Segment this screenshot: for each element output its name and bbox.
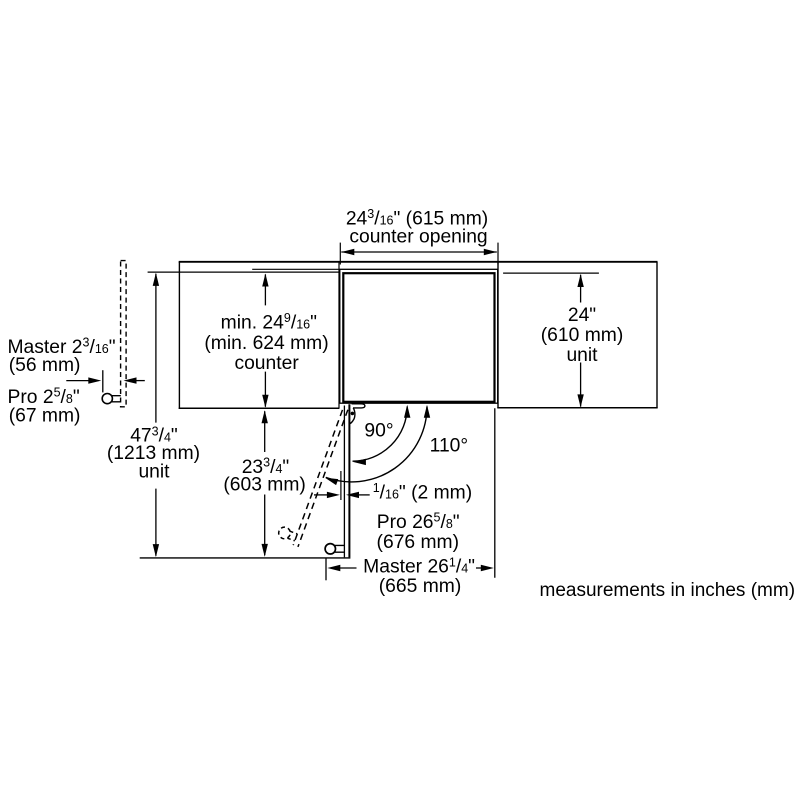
side-view handle stem bbox=[112, 396, 121, 402]
1/16 extension line bbox=[340, 471, 342, 500]
min counter dimension line bbox=[264, 274, 266, 406]
right counter right edge bbox=[656, 262, 658, 408]
svg-text:(665 mm): (665 mm) bbox=[379, 576, 462, 597]
master dimension left arrow line bbox=[340, 567, 357, 569]
wall line across top bbox=[179, 261, 658, 263]
top dimension line bbox=[341, 251, 497, 253]
1/16 right-pointing arrowhead bbox=[327, 492, 340, 498]
svg-text:90°: 90° bbox=[364, 420, 393, 441]
svg-text:measurements in inches (mm): measurements in inches (mm) bbox=[540, 580, 796, 601]
min counter up arrowhead bbox=[262, 274, 268, 287]
hinge curve bbox=[349, 408, 355, 424]
dashed door at 110 degrees bbox=[276, 402, 348, 547]
bottom extension line bbox=[140, 557, 351, 559]
svg-text:unit: unit bbox=[566, 345, 598, 366]
right counter left edge bbox=[497, 262, 499, 408]
23 3/4 dimension line bbox=[264, 411, 266, 555]
top dimension extension line left bbox=[339, 243, 341, 265]
svg-text:24": 24" bbox=[568, 305, 596, 326]
master right-pointing arrowhead bbox=[481, 565, 494, 571]
top dimension extension line right bbox=[497, 243, 499, 265]
hinge tab bbox=[352, 404, 365, 408]
master left-pointing arrowhead bbox=[327, 565, 340, 571]
master bottom right extension line bbox=[494, 408, 496, 577]
door open 90 right line bbox=[348, 404, 350, 557]
right counter bottom edge bbox=[497, 407, 657, 409]
47 3/4 down arrowhead bbox=[153, 544, 159, 557]
90 degree arc bbox=[353, 407, 408, 462]
unit outer rectangle bbox=[340, 269, 498, 403]
svg-text:min. 249/16": min. 249/16" bbox=[221, 311, 317, 333]
svg-text:(610 mm): (610 mm) bbox=[541, 325, 624, 346]
svg-text:1/16" (2 mm): 1/16" (2 mm) bbox=[373, 481, 472, 503]
top dimension right arrowhead bbox=[484, 249, 497, 255]
svg-text:110°: 110° bbox=[430, 436, 468, 457]
unit inner rectangle bbox=[343, 273, 494, 402]
door open 90 left line bbox=[343, 406, 345, 558]
handle dimension left arrow line bbox=[66, 380, 89, 382]
1/16 left arrow line bbox=[314, 494, 328, 496]
left counter left edge bbox=[178, 262, 180, 409]
handle dimension tick bbox=[102, 370, 104, 392]
svg-text:Master 261/4": Master 261/4" bbox=[363, 555, 475, 577]
svg-text:Pro 265/8": Pro 265/8" bbox=[377, 511, 460, 533]
24 right dimension line bbox=[580, 275, 582, 407]
dashed side-view unit outline bbox=[121, 261, 127, 407]
master bottom left extension line bbox=[325, 558, 327, 580]
svg-text:counter: counter bbox=[234, 353, 299, 374]
svg-text:(676 mm): (676 mm) bbox=[377, 532, 460, 553]
svg-text:(56 mm): (56 mm) bbox=[9, 355, 81, 376]
right counter front line bbox=[503, 272, 599, 274]
min counter down arrowhead bbox=[262, 395, 268, 408]
47 3/4 up arrowhead bbox=[153, 273, 159, 286]
24 right down arrowhead bbox=[577, 394, 583, 407]
top dimension left arrowhead bbox=[341, 249, 354, 255]
handle dim left-pointing arrowhead bbox=[124, 377, 137, 383]
47 3/4 dimension line bbox=[155, 274, 157, 556]
110 degree arc bbox=[326, 407, 427, 482]
110 arc start arrowhead bbox=[424, 405, 430, 418]
door handle stem bbox=[335, 545, 345, 552]
left counter right edge bbox=[338, 262, 340, 408]
left counter bottom edge bbox=[179, 407, 340, 409]
door handle circle bbox=[325, 544, 335, 554]
90 arc end arrowhead bbox=[353, 459, 366, 465]
svg-text:(67 mm): (67 mm) bbox=[9, 405, 81, 426]
110 arc end arrowhead bbox=[325, 478, 338, 485]
1/16 right arrow line bbox=[359, 494, 370, 496]
23 3/4 up arrowhead bbox=[262, 410, 268, 423]
47 3/4 top extension line bbox=[148, 271, 340, 273]
side-view handle circle bbox=[102, 394, 112, 404]
svg-text:(min. 624 mm): (min. 624 mm) bbox=[204, 333, 328, 354]
1/16 left-pointing arrowhead bbox=[346, 492, 359, 498]
left counter front line bbox=[252, 268, 339, 270]
hinge pin bbox=[351, 412, 355, 416]
svg-text:counter opening: counter opening bbox=[349, 227, 487, 248]
23 3/4 down arrowhead bbox=[262, 544, 268, 557]
handle dimension right arrow line bbox=[136, 380, 145, 382]
svg-text:unit: unit bbox=[138, 462, 170, 483]
svg-text:(603 mm): (603 mm) bbox=[223, 474, 306, 495]
24 right up arrowhead bbox=[577, 274, 583, 287]
master dimension right arrow line bbox=[476, 567, 481, 569]
handle dim right-pointing arrowhead bbox=[88, 377, 101, 383]
90 arc start arrowhead bbox=[404, 405, 410, 418]
